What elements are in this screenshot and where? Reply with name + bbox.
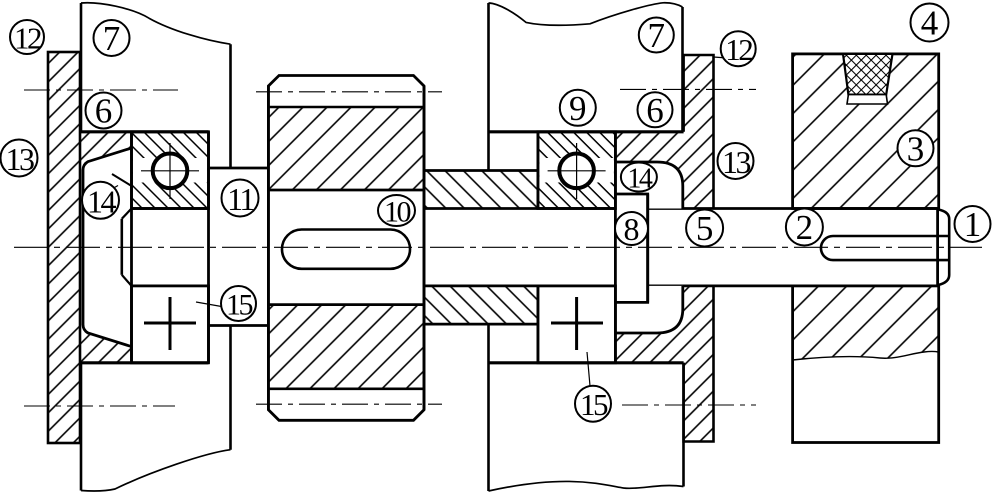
housing upper-right white body	[489, 3, 683, 171]
svg-text:14: 14	[87, 183, 117, 219]
bearing upper-left	[132, 132, 209, 209]
svg-text:6: 6	[646, 91, 664, 130]
callout 12 right cover top	[721, 31, 756, 67]
svg-text:4: 4	[921, 4, 939, 43]
callout 12 left cover top	[10, 20, 44, 56]
sleeve upper	[424, 171, 538, 209]
svg-text:7: 7	[103, 19, 121, 58]
bolt center lines	[24, 89, 178, 91]
callout 13 right cover	[718, 143, 754, 180]
gear pitch lines	[256, 91, 442, 93]
svg-text:10: 10	[384, 196, 411, 229]
callout 14 left slinger	[82, 182, 119, 220]
svg-text:15: 15	[226, 289, 253, 322]
callout 2 keyway seat	[786, 208, 823, 247]
right cover wall+spigot upper	[615, 55, 713, 209]
keyway in gear seat (10)	[282, 230, 410, 269]
callout 15 left bearing	[221, 286, 256, 322]
svg-text:3: 3	[907, 129, 925, 168]
callout 3 coupling hub	[898, 129, 934, 168]
svg-text:7: 7	[648, 16, 666, 55]
callout 15 right bearing	[575, 386, 611, 423]
shaft shoulder bar (8)	[615, 194, 647, 302]
svg-text:13: 13	[6, 141, 35, 177]
svg-text:1: 1	[964, 205, 982, 244]
svg-text:13: 13	[722, 144, 751, 180]
callout 6 right shim	[638, 91, 673, 130]
housing upper-left white body	[81, 3, 231, 168]
left cover spigot lower	[80, 329, 132, 363]
key (4)	[843, 54, 893, 95]
callout 8 shaft shoulder	[615, 211, 648, 247]
gear body	[268, 76, 424, 421]
svg-text:11: 11	[227, 181, 254, 217]
coupling hub lower with break	[793, 286, 939, 443]
callout 14 right slinger	[621, 163, 657, 195]
svg-text:14: 14	[627, 164, 653, 195]
svg-text:12: 12	[725, 32, 752, 67]
gear rim hatch upper	[268, 107, 424, 190]
svg-text:15: 15	[580, 387, 608, 422]
callout 4 key	[911, 4, 949, 43]
bearing lower-left simplified	[132, 286, 209, 363]
shaft collar lines (left)	[209, 167, 269, 170]
svg-text:9: 9	[569, 89, 587, 128]
shaft vertical faces	[130, 132, 133, 363]
sleeve lower	[424, 286, 538, 324]
callout 9 right bearing	[560, 89, 596, 128]
callout 5 shaft section	[686, 209, 723, 248]
left cover spigot upper	[80, 132, 132, 166]
housing lower-right white body	[489, 324, 684, 491]
callout 7 right housing	[639, 16, 674, 55]
housing lower-left white body	[81, 326, 231, 492]
leaders	[112, 174, 132, 186]
callout 6 left shim	[86, 92, 122, 131]
shaft journal lines	[132, 207, 209, 210]
left oil slinger (14)	[83, 148, 132, 347]
bearing upper-right	[538, 132, 616, 209]
gear rim hatch lower	[268, 305, 424, 389]
gear bore lines	[268, 189, 424, 192]
center line	[14, 246, 982, 248]
coupling hub upper (3)	[793, 54, 939, 209]
svg-text:5: 5	[696, 209, 714, 248]
gear root lines	[268, 106, 424, 109]
svg-text:6: 6	[95, 92, 113, 131]
bearing lower-right simplified	[538, 286, 616, 363]
shaft right end	[936, 209, 939, 286]
callout 13 left cover	[1, 140, 38, 178]
callout 10 gear key	[378, 195, 415, 229]
callout 7 left housing	[94, 19, 130, 58]
right seal ring lower	[615, 286, 682, 333]
right seal ring upper (14)	[615, 162, 682, 209]
left end-cover flange	[48, 52, 80, 443]
housing bore lines	[81, 130, 209, 133]
callout 1 shaft end	[955, 205, 991, 244]
shaft left end	[121, 219, 124, 275]
svg-text:2: 2	[796, 208, 814, 247]
svg-text:12: 12	[14, 21, 41, 56]
right cover wall+spigot lower	[615, 286, 713, 442]
keyway at coupling seat (2)	[821, 236, 949, 260]
svg-text:8: 8	[624, 211, 640, 247]
callout 11 shaft collar	[222, 180, 259, 218]
